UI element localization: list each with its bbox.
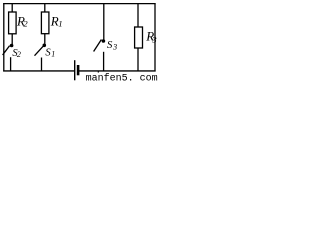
wire: stub from top bus to R2: [11, 4, 13, 13]
svg-text:3: 3: [112, 43, 117, 52]
switch S2 lever: [3, 46, 10, 55]
wire: stub from top bus to S3: [103, 4, 105, 40]
svg-text:1: 1: [51, 49, 55, 58]
battery negative plate (short thick): [77, 65, 80, 75]
svg-text:2: 2: [23, 18, 28, 28]
svg-text:S: S: [107, 39, 113, 51]
svg-text:2: 2: [17, 50, 21, 59]
wire: S3 bottom to bottom bus: [103, 52, 105, 71]
wire: S1 bottom to bottom bus: [41, 58, 43, 71]
wire: bottom bus left of battery: [3, 70, 74, 72]
wire: bottom bus right of battery: [78, 70, 155, 72]
wire: R1 to switch S1: [44, 34, 46, 44]
node: S2 top terminal: [10, 44, 14, 48]
wire: left side: [3, 3, 5, 72]
wire: stub from top bus to R3: [137, 4, 139, 28]
node: S1 top terminal: [43, 44, 47, 48]
wire: R3 to bottom bus: [137, 48, 139, 71]
wire: right side: [154, 3, 156, 72]
switch S1 lever: [35, 46, 44, 56]
battery positive plate (long): [74, 60, 76, 80]
resistor R2: [9, 12, 17, 34]
node: S3 top terminal: [102, 39, 106, 43]
svg-text:manfen5. com: manfen5. com: [86, 72, 158, 82]
resistor R3: [135, 27, 143, 48]
wire: short stub below bottom bus: [97, 71, 99, 73]
wire: top bus: [3, 3, 155, 5]
switch S3 lever: [94, 40, 102, 52]
wire: S2 bottom to bottom bus: [10, 57, 12, 71]
wire: stub from top bus to R1: [44, 4, 46, 13]
svg-text:3: 3: [151, 34, 157, 44]
svg-text:1: 1: [58, 19, 62, 29]
wire: R2 to switch S2: [11, 34, 13, 44]
resistor R1: [41, 12, 49, 34]
